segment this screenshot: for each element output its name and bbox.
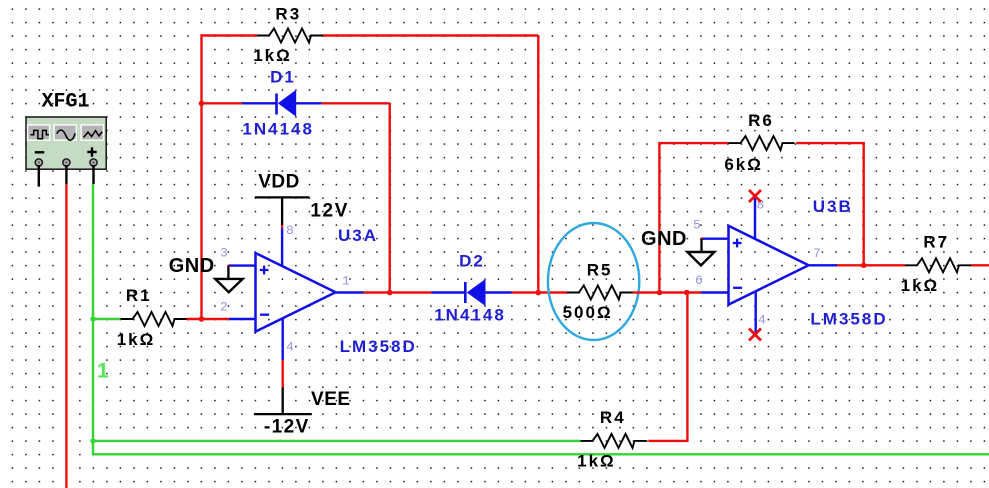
svg-text:500Ω: 500Ω [563,303,613,322]
diode D1 1N4148 [242,68,322,139]
svg-text:3: 3 [220,246,228,261]
node junction R6 feedback tap [657,290,663,296]
svg-text:VEE: VEE [311,389,351,410]
diode D2 1N4148 [432,251,512,324]
svg-text:5: 5 [693,218,701,233]
wire R6 feedback loop (red) [659,143,863,292]
resistor R1 [117,286,187,349]
wire R5 to U3B pin6 (red then blue) [633,291,701,293]
svg-text:-12V: -12V [264,417,310,438]
svg-text:R6: R6 [748,111,774,130]
node U3B pin5 connection dot [701,238,704,241]
ground GND at U3A pin3 [169,255,243,292]
wire R7 out to edge (red) [971,264,989,266]
svg-text:R5: R5 [587,261,613,280]
node green junction at upper rail [90,438,95,443]
resistor R5 [563,261,633,323]
resistor R6 [724,111,794,174]
svg-text:GND: GND [169,255,215,277]
svg-text:1kΩ: 1kΩ [253,46,292,65]
wire XFG1 common lead (black then red, down off page) [65,165,67,184]
node junction R1/pin2 [199,316,205,322]
wire D2 to R5 (red) [512,291,567,293]
node U3A pin3 connection dot [228,265,231,268]
power VDD rail [255,172,349,225]
svg-text:4: 4 [758,313,766,328]
node output junction [387,290,393,296]
svg-text:4: 4 [286,340,294,355]
svg-text:2: 2 [220,300,228,315]
svg-text:VDD: VDD [258,172,300,193]
svg-text:R7: R7 [923,233,949,252]
svg-text:R3: R3 [275,4,301,23]
svg-text:6kΩ: 6kΩ [724,155,763,174]
svg-text:XFG1: XFG1 [42,91,90,114]
wire net 1 branch to R1 [93,318,121,320]
svg-text:R1: R1 [126,286,152,305]
annotation ellipse around R5 [548,223,639,340]
svg-text:1kΩ: 1kΩ [117,330,156,349]
svg-text:LM358D: LM358D [810,310,887,329]
wire U3A pin4 [282,318,284,360]
node junction R3 feedback tap [536,290,542,296]
power VEE rail [254,389,351,437]
svg-text:R4: R4 [600,408,626,427]
wire feedback left vertical (R3/D1 to inverting input) [200,34,202,319]
wire U3A pin8 [281,225,283,228]
resistor R3 [253,4,323,65]
wire XFG1 plus lead (black then green net 1) [92,165,94,184]
wire D1 left lead (red) [202,102,243,104]
svg-text:8: 8 [286,223,294,238]
wire U3A pin3 (blue) [228,264,255,266]
wire R1 to U3A pin2 (red) [187,318,230,320]
svg-text:7: 7 [813,246,821,261]
ground GND at U3B pin5 [641,228,714,266]
svg-text:1kΩ: 1kΩ [577,452,616,471]
no-connect X pin4 [749,329,761,341]
op-amp U3B [729,197,888,329]
svg-text:D1: D1 [270,68,296,87]
svg-text:U3B: U3B [813,197,853,216]
svg-text:1: 1 [97,360,109,383]
no-connect X pin8 [749,190,761,202]
wire XFG1 minus stub (black) [38,165,40,187]
node green junction at R1 branch [90,316,95,321]
op-amp U3A [256,226,417,356]
node junction R6/output [861,263,867,269]
wire R4 riser (red) [648,293,687,441]
svg-text:12V: 12V [310,200,349,221]
wire D1 right to output junction (red) [322,103,390,292]
svg-text:1: 1 [342,274,350,289]
node junction R4 tap [684,290,690,296]
wire green upper rail to R4 [93,440,581,442]
wire R3 top loop (red) [202,36,539,293]
wire U3B pin8 (blue, unconnected) [754,199,756,239]
svg-text:6: 6 [695,273,703,288]
svg-text:LM358D: LM358D [340,337,417,356]
function generator XFG1 [26,91,106,170]
resistor R7 [901,233,971,296]
wire net 1 vertical + bottom rail [93,184,989,454]
wire U3A output (blue then red) [336,291,364,293]
svg-text:1N4148: 1N4148 [242,120,314,139]
svg-text:1N4148: 1N4148 [434,305,506,324]
svg-text:U3A: U3A [338,226,378,245]
node junction D1 left [199,101,205,107]
wire U3B output pin7 (blue then red) [809,264,837,266]
resistor R4 [577,408,646,471]
wire U3B pin5 (blue) [702,237,729,239]
svg-text:D2: D2 [459,251,485,270]
svg-text:1kΩ: 1kΩ [901,276,940,295]
svg-text:GND: GND [641,228,687,250]
wire U3B pin4 (blue, unconnected) [755,291,757,333]
